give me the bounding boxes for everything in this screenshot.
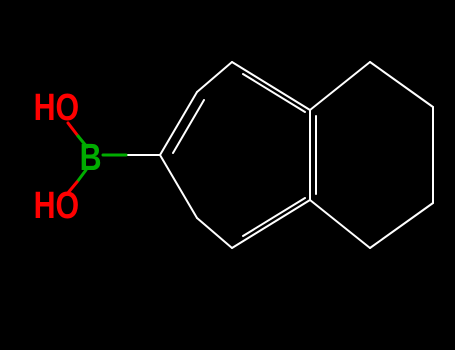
svg-text:HO: HO <box>34 87 80 129</box>
svg-text:HO: HO <box>34 185 80 227</box>
svg-text:B: B <box>80 137 102 179</box>
